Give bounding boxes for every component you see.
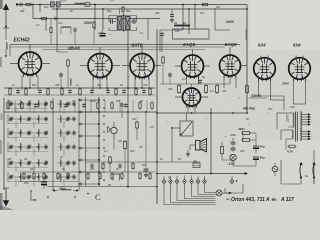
svg-text:ECH42: ECH42 [14,38,30,44]
resistor R1 [25,4,27,6]
wire rectifier links [247,96,306,113]
svg-text:50k: 50k [32,83,37,87]
svg-text:és: és [272,197,278,202]
tube V6 6X4 [254,58,276,82]
mains prong left [300,163,303,179]
fuse F1 [272,163,280,176]
mains prong right [313,163,316,179]
wire plug links [281,150,314,184]
svg-text:10n: 10n [58,21,63,25]
svg-text:220V: 220V [286,114,290,123]
svg-text:250: 250 [23,181,29,185]
resistor R12 [216,84,218,86]
switch dots column [103,99,104,180]
wire transformer primary [277,113,293,150]
svg-text:2n: 2n [159,157,163,161]
svg-text:40μ: 40μ [259,145,265,149]
junction dots buses [5,4,248,188]
svg-text:25n: 25n [131,117,137,121]
resistor R13 [246,84,248,86]
components row 1 [9,87,151,96]
wire y162 [157,161,200,163]
svg-text:240V: 240V [281,82,290,86]
svg-text:6BA6: 6BA6 [68,46,80,51]
wire left drop [9,45,11,57]
svg-text:50p: 50p [126,9,131,13]
svg-text:▪: ▪ [279,169,280,172]
power capacitor C16 [41,178,47,190]
svg-text:70k: 70k [143,83,148,87]
wire y181 faint [18,181,78,183]
svg-text:5n: 5n [202,75,205,79]
junction dots [47,193,89,198]
tuning row 3 [8,128,76,142]
svg-text:0,1: 0,1 [182,77,186,81]
wire loop rectangle [173,29,210,39]
svg-text:4n: 4n [115,167,119,171]
ground G1 capacitor [170,9,174,22]
capacitor C11 [120,102,124,118]
resistor R10 [178,84,180,86]
svg-text:40μ: 40μ [259,156,265,160]
svg-text:2000: 2000 [0,113,4,120]
svg-text:50n: 50n [142,163,147,167]
svg-text:6X4: 6X4 [293,43,301,48]
svg-text:50n: 50n [44,5,49,9]
tube V1 ECH42 [19,52,42,77]
wire bus y47 [10,46,225,48]
bracket top right [113,174,120,181]
components row 2 [7,100,153,112]
tube V4 6AQ5 [182,55,204,79]
svg-text:25k: 25k [154,11,160,15]
resistor R18 [241,132,243,134]
svg-text:240V: 240V [225,20,235,24]
svg-text:5n: 5n [62,167,65,171]
resistor R19 [241,139,243,141]
capacitor C1 antenna coupling [16,3,24,7]
wire bottom bus [157,172,248,174]
switch fan-out [164,184,216,205]
svg-text:2000: 2000 [58,187,66,191]
svg-text:0,1: 0,1 [50,99,54,103]
svg-text:3n: 3n [60,155,63,159]
resistor R5 [93,21,95,23]
svg-text:A2: A2 [23,157,28,161]
power transformer T2 [292,112,301,142]
svg-text:450n: 450n [229,133,236,137]
svg-text:80p: 80p [97,83,102,87]
wire tube bottom leads [22,74,306,104]
wire vertical stubs top [33,5,211,205]
wire extras [6,8,256,186]
svg-text:1n: 1n [140,31,143,35]
earth electrode [3,188,9,206]
svg-text:20n: 20n [29,167,35,171]
transformer taps [302,114,311,141]
wire T1 links [94,15,137,45]
components bottom row [20,172,155,180]
svg-text:1k: 1k [174,21,178,25]
wire top bus B [52,8,247,10]
resistor R3 [201,4,203,6]
svg-text:~: ~ [305,175,309,181]
svg-text:25k: 25k [115,99,121,103]
capacitor C13 stack [231,140,236,151]
pilot lamp [230,154,236,160]
svg-text:1n: 1n [28,99,31,103]
svg-text:Orion 443, 711 A: Orion 443, 711 A [231,197,270,203]
svg-text:2k: 2k [69,9,73,13]
capacitor C2 block [51,2,61,7]
capacitor C6 [160,32,164,52]
oscillator coil T1 [117,14,130,32]
tuning row 4 [8,142,76,156]
svg-text:5n: 5n [246,117,249,121]
svg-text:24V: 24V [289,105,295,109]
svg-text:pu: pu [167,176,172,179]
tube V2 6BA6 [88,54,112,80]
IF can components [57,52,71,95]
wire y113 segment [157,112,247,114]
wire HT rail vertical [246,5,248,114]
wire bus y112 [4,111,157,113]
wire V8 leads [188,84,195,113]
capacitor C4 [110,19,112,24]
fuse box F2 [193,160,200,168]
svg-text:10n: 10n [90,167,95,171]
capacitor C3 [54,17,56,21]
svg-text:15k: 15k [168,87,173,91]
coupling components [162,56,172,85]
coil L1 [75,3,90,7]
ground G2 [186,150,190,156]
capacitor C5 [132,19,134,24]
svg-text:1n: 1n [12,83,15,87]
svg-text:10n: 10n [268,107,273,111]
svg-text:6AQ5: 6AQ5 [183,42,195,47]
wire lamp links [222,138,233,166]
resistor R2 [40,18,42,20]
svg-text:22k: 22k [19,9,25,13]
switch diamond right [230,176,237,185]
dial cord 2000 [53,187,79,192]
svg-text:2k: 2k [119,83,123,87]
speaker LS1 [196,139,207,152]
scan edge smudges [0,0,114,210]
svg-text:50p: 50p [107,9,112,13]
bracket left [30,190,36,200]
svg-text:40n 40μ: 40n 40μ [242,107,255,111]
svg-text:AF: AF [7,157,12,161]
wire speaker links [172,113,196,162]
wire bus y49.5 [42,49,205,51]
thick resistor segment [174,25,190,27]
tuning row 6 [8,172,76,186]
svg-text:10k: 10k [175,29,180,33]
svg-text:50: 50 [194,160,198,164]
wire above title [225,188,232,194]
tuning row 2 [8,114,76,128]
svg-text:A 117: A 117 [280,197,294,203]
capacitor C10 [198,80,202,82]
svg-text:450n: 450n [237,127,245,131]
resistor R15 [136,121,138,123]
wire y84 segment [160,83,230,85]
tube V7 6X4 [289,58,311,82]
tube V8 triode [183,88,201,108]
svg-text:230V: 230V [83,21,93,25]
svg-text:0,5: 0,5 [150,125,154,129]
resistor R20 [286,145,297,153]
capacitor C12 ground [144,160,149,177]
capacitor C6b dark [100,30,106,36]
svg-text:15n: 15n [240,149,245,153]
svg-text:0,1: 0,1 [104,149,108,153]
svg-text:verst: verst [90,99,96,103]
svg-text:6AT6: 6AT6 [132,43,143,48]
electrolytic C14 [253,141,265,153]
components mid row y166 [85,162,157,170]
wire y186.5 [47,186,157,188]
resistor R17 [221,145,223,147]
svg-text:0,1: 0,1 [36,23,40,27]
resistor R14 [124,140,126,142]
switch box S1 [180,121,193,136]
svg-text:6AQ5: 6AQ5 [225,42,237,47]
tube V3 6AT6 [130,54,154,80]
resistor R16 [109,156,111,158]
band switch ladder [78,97,100,186]
svg-text:0,5: 0,5 [200,11,204,15]
svg-text:300: 300 [55,83,60,87]
tiny value labels [7,5,295,187]
tuning row 5 [8,158,76,172]
wire bus C [33,18,160,20]
left border rails [4,98,79,190]
electrolytic C15 [253,156,265,164]
wire bus y95 [4,94,155,96]
tuning row 1 [8,99,76,113]
svg-text:6X4: 6X4 [258,43,266,48]
svg-text:1n: 1n [76,83,79,87]
scan speckles [5,6,308,188]
antenna [3,4,9,56]
oscillator section parts [50,19,77,45]
svg-text:–17V: –17V [227,162,235,166]
tube V5 6AQ5 [220,55,241,78]
svg-text:0,3: 0,3 [210,89,214,93]
wire tube side leads [10,64,247,98]
svg-text:C: C [95,192,101,202]
wire tube top leads [30,45,303,59]
svg-text:1k: 1k [183,21,187,25]
wire bus y88 [4,87,155,89]
wire top bus A [16,4,247,6]
label 33000 [249,94,267,98]
motor M1 [216,184,243,196]
switch diamonds [162,176,206,185]
svg-text:25n: 25n [129,149,135,153]
svg-text:3n: 3n [72,99,75,103]
phono jack J1 [108,122,118,140]
resistor R4 above T1 [122,6,124,8]
wire bus y44.5 [10,44,240,46]
resistor R11 [205,84,207,86]
title dash [226,198,230,200]
svg-text:100p: 100p [98,31,104,35]
